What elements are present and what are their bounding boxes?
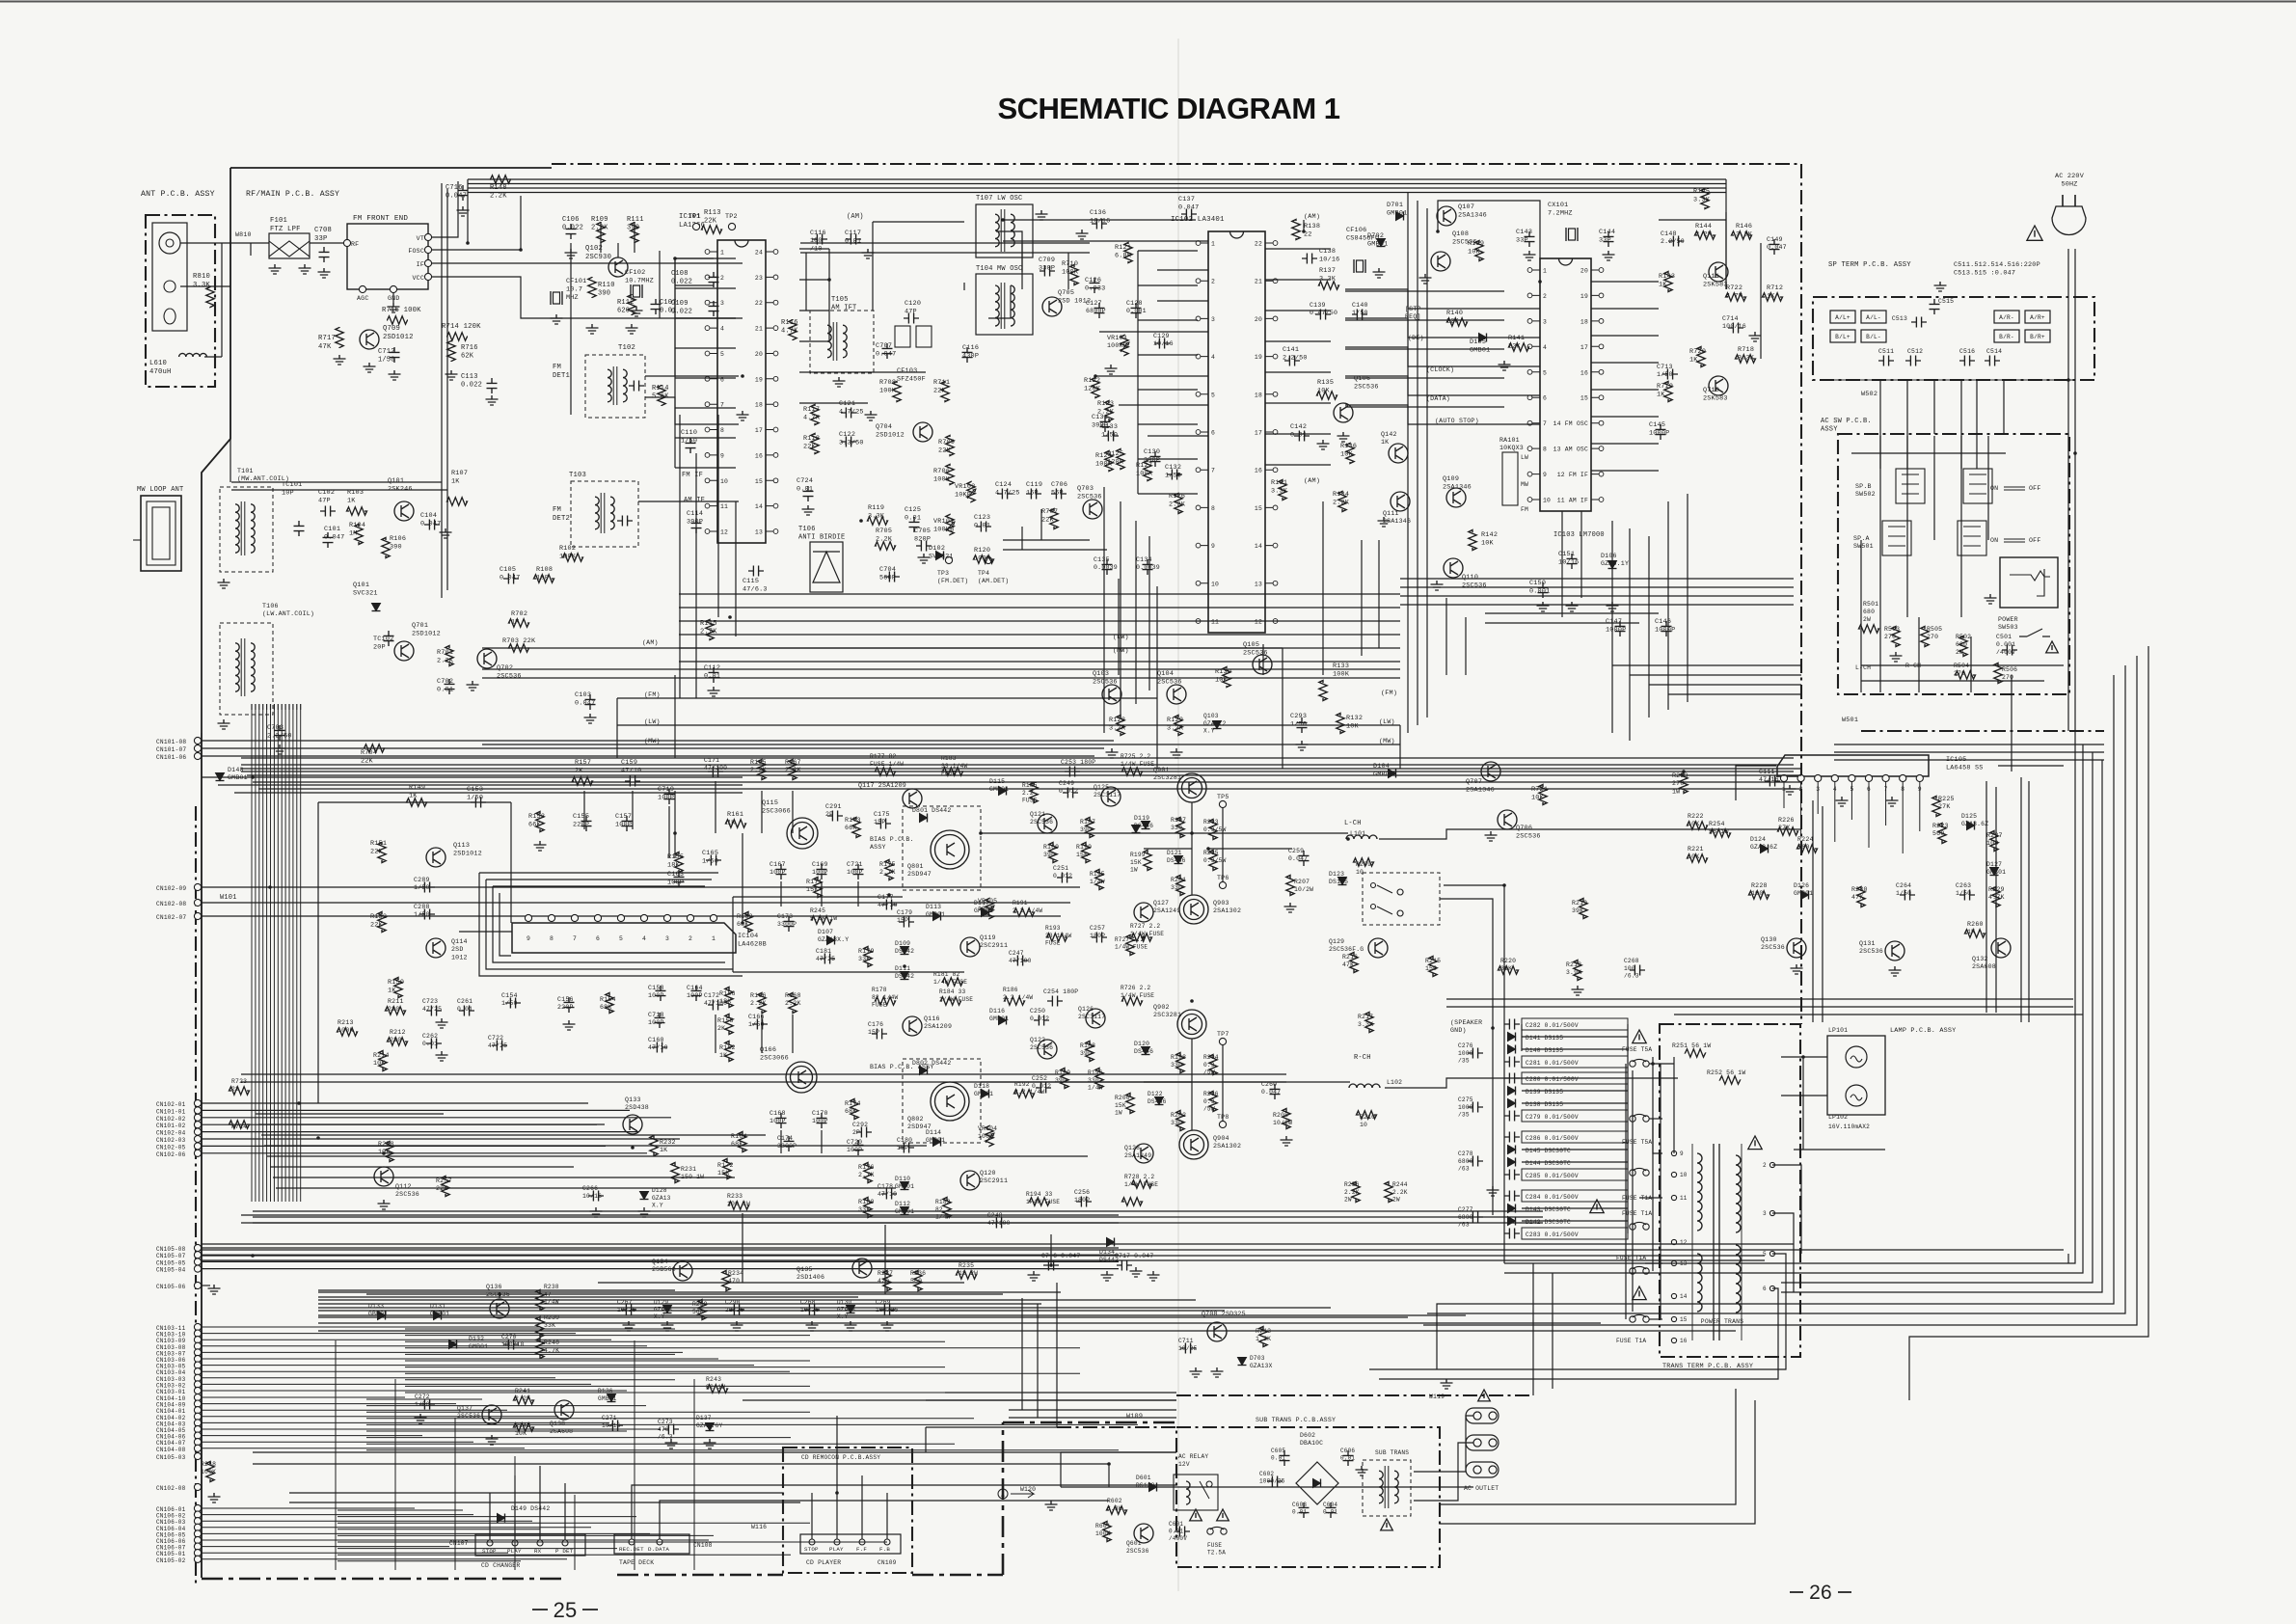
svg-text:T103: T103 (569, 472, 586, 479)
svg-text:R219: R219 (1572, 900, 1587, 907)
wire bottom-left risers2 (489, 1493, 491, 1504)
svg-text:ASSY: ASSY (870, 844, 886, 851)
resistor R218 (1574, 961, 1581, 981)
svg-text:0.01: 0.01 (422, 1041, 438, 1047)
svg-text:R179: R179 (858, 948, 875, 955)
transformer T102 coils (608, 366, 627, 405)
wire stair E (1437, 675, 2114, 1369)
svg-text:C129: C129 (1153, 333, 1170, 339)
svg-text:GMB01: GMB01 (895, 1183, 914, 1190)
trans secondary (1736, 1155, 1741, 1232)
ceramic CF103 (895, 326, 932, 347)
capacitor C250 (1034, 1015, 1049, 1026)
capacitor C283 (1522, 1228, 1628, 1239)
svg-text:A/L-: A/L- (1866, 314, 1881, 321)
svg-text:22K: 22K (436, 1185, 447, 1192)
testpoint TP2 (728, 223, 735, 230)
svg-text:CN102-04: CN102-04 (156, 1130, 186, 1137)
resistor R227 (1990, 831, 1998, 852)
svg-text:C116: C116 (810, 230, 826, 236)
svg-text:2.2K: 2.2K (1169, 501, 1186, 508)
wire relay-ic105 rows (1446, 998, 2073, 1000)
svg-text:R258: R258 (378, 1141, 394, 1148)
svg-text:IC103 LM7000: IC103 LM7000 (1553, 531, 1605, 539)
svg-text:C113: C113 (461, 373, 478, 381)
wire sub feed (1414, 1416, 1473, 1472)
wire fuse col (1625, 1064, 1627, 1319)
T107 LW OSC box (976, 204, 1033, 257)
diode D601 (1149, 1483, 1157, 1492)
svg-text:1/4W FUSE: 1/4W FUSE (1121, 992, 1154, 999)
ground C117 (862, 249, 875, 258)
trans core (1714, 1144, 1719, 1340)
svg-text:R722: R722 (1726, 284, 1742, 292)
wire varicap feeds (1725, 212, 1727, 289)
testpoint TP8 (1219, 1121, 1226, 1127)
svg-text:6: 6 (1763, 1286, 1767, 1292)
svg-text:270: 270 (1672, 780, 1684, 787)
ground R110 (586, 324, 599, 334)
svg-text:0.047: 0.047 (500, 574, 520, 582)
capacitor C719 (664, 789, 675, 804)
wire stair F (1427, 665, 2125, 1313)
svg-text:10P: 10P (282, 489, 294, 497)
diode D125 (1967, 822, 1975, 830)
svg-text:FM FRONT END: FM FRONT END (353, 215, 408, 223)
capacitor C141 (1284, 356, 1300, 366)
svg-text:15: 15 (1255, 505, 1262, 512)
svg-text:R248: R248 (201, 1461, 216, 1468)
svg-text:D145 DSC30TC: D145 DSC30TC (1526, 1148, 1571, 1154)
svg-text:LP101: LP101 (1828, 1027, 1848, 1034)
wire tuner inner mesh1 (1407, 193, 1409, 733)
svg-text:C175: C175 (874, 811, 890, 818)
CN107 leads (489, 1504, 491, 1540)
svg-text:19: 19 (755, 376, 763, 383)
svg-text:CN102-01: CN102-01 (156, 1101, 186, 1108)
svg-text:C713: C713 (1657, 364, 1673, 370)
svg-text:R209: R209 (1356, 861, 1371, 868)
wire IC104 wrap (479, 873, 743, 976)
svg-text:C514: C514 (1986, 348, 2002, 355)
svg-text:66K: 66K (845, 825, 856, 831)
svg-text:FOSC: FOSC (408, 248, 424, 255)
svg-text:R228: R228 (1751, 882, 1768, 889)
svg-text:4.7/25: 4.7/25 (839, 408, 864, 416)
svg-text:12: 12 (720, 529, 728, 536)
transistor Q125 (1101, 787, 1121, 806)
svg-text:AC SW P.C.B.: AC SW P.C.B. (1821, 418, 1872, 425)
svg-text:100: 100 (1751, 890, 1763, 897)
fet Q111 (1709, 262, 1728, 282)
svg-text:LA1266: LA1266 (679, 222, 705, 230)
wire W810 vert (230, 243, 231, 482)
svg-text:100P: 100P (812, 869, 828, 876)
resistor R103 (347, 507, 367, 515)
svg-text:C267: C267 (617, 1299, 633, 1306)
svg-text:R188: R188 (1080, 1042, 1095, 1049)
svg-text:C104: C104 (420, 512, 437, 520)
wire spterm top links (1824, 379, 2073, 381)
svg-text:R254: R254 (1709, 821, 1725, 827)
resistor R723 (230, 1087, 250, 1095)
svg-text:Q113: Q113 (453, 842, 470, 850)
fuse F T1A-1 (1630, 1168, 1649, 1176)
svg-text:Q125: Q125 (1094, 784, 1109, 791)
svg-text:R191: R191 (1013, 900, 1028, 907)
svg-text:14: 14 (755, 503, 763, 510)
svg-text:1/50: 1/50 (414, 911, 430, 918)
fuse F T5A-1 (1630, 1059, 1649, 1067)
capacitor C266 (588, 1191, 604, 1202)
resistor R503 (1892, 627, 1900, 647)
wire right stair extras (1423, 656, 2137, 1325)
svg-text:C106: C106 (562, 216, 580, 224)
resistor R704 (365, 744, 385, 752)
svg-text:GMB01: GMB01 (469, 1343, 488, 1350)
svg-text:GZA5.1Y: GZA5.1Y (1601, 560, 1629, 567)
svg-text:CN105-05: CN105-05 (156, 1259, 186, 1266)
diode D124 (1761, 845, 1769, 853)
connector CN107 box (475, 1534, 585, 1556)
svg-text:26: 26 (1809, 1582, 1832, 1604)
diode D701 (1396, 212, 1404, 221)
ground C723 (436, 1018, 448, 1028)
svg-text:0.047: 0.047 (1767, 244, 1787, 251)
svg-text:CN102-05: CN102-05 (156, 1144, 186, 1150)
svg-text:C120: C120 (905, 300, 921, 308)
svg-text:R231: R231 (681, 1166, 696, 1173)
svg-text:R242: R242 (515, 1422, 530, 1429)
wire mid right rows (241, 1073, 1286, 1075)
capacitor C164 (691, 986, 702, 1001)
svg-text:100P: 100P (615, 821, 632, 828)
svg-text:R206: R206 (1203, 1091, 1219, 1097)
svg-text:CN101-07: CN101-07 (156, 746, 186, 753)
wire tuner lattice A (800, 242, 1090, 244)
svg-text:10K: 10K (1481, 539, 1495, 547)
resistor R174 (851, 1099, 858, 1120)
svg-text:1000P: 1000P (1606, 626, 1626, 634)
svg-text:AGC: AGC (357, 295, 368, 302)
svg-text:1000/25: 1000/25 (1259, 1478, 1285, 1485)
resistor R727b (1126, 935, 1134, 956)
capacitor C720 (853, 1140, 864, 1155)
svg-text:R717: R717 (318, 335, 336, 342)
svg-text:GMB01: GMB01 (228, 774, 248, 781)
resistor R226 (1778, 827, 1798, 835)
svg-text:C119: C119 (1026, 481, 1042, 489)
BIAS box 2 (903, 1059, 981, 1143)
svg-text:Q166: Q166 (760, 1046, 776, 1054)
svg-text:A/R-: A/R- (1999, 314, 2014, 321)
diode D137 (706, 1423, 715, 1431)
svg-text:390P: 390P (687, 518, 703, 526)
testpoint TP1 (692, 223, 699, 230)
wire CN103 fan (202, 1326, 540, 1328)
svg-text:Q702: Q702 (497, 664, 513, 672)
resistor R722 (1726, 293, 1746, 301)
wire lower amp stubs (715, 1015, 716, 1053)
wire relay to spk (1444, 885, 1504, 1263)
capacitor C249 (1063, 788, 1078, 798)
svg-text:VR101: VR101 (933, 518, 954, 526)
svg-text:2SC536: 2SC536 (1093, 678, 1118, 686)
svg-text:20: 20 (1255, 316, 1262, 323)
svg-text:SP TERM P.C.B. ASSY: SP TERM P.C.B. ASSY (1828, 261, 1911, 269)
svg-text:16: 16 (1580, 369, 1588, 376)
svg-text:2SD947: 2SD947 (907, 871, 932, 878)
svg-text:C140: C140 (1352, 302, 1368, 309)
svg-text:7: 7 (1543, 420, 1547, 427)
resistor R168 (789, 993, 797, 1014)
diode D145 (1508, 1146, 1516, 1154)
wire low fans extend (318, 1289, 675, 1291)
transistor Q136 (490, 1299, 509, 1318)
svg-text:Q119: Q119 (980, 934, 996, 941)
svg-text:15K: 15K (1130, 859, 1142, 866)
svg-text:CN102-03: CN102-03 (156, 1137, 186, 1144)
svg-text:2W: 2W (1956, 649, 1963, 656)
svg-text:SUB TRANS: SUB TRANS (1375, 1449, 1409, 1456)
capacitor C280 (1522, 1072, 1628, 1084)
wire FOSC (431, 196, 521, 250)
svg-text:16V.110mAX2: 16V.110mAX2 (1828, 1123, 1870, 1130)
transistor Q114 (426, 938, 446, 958)
svg-text:47/10: 47/10 (648, 1044, 668, 1051)
diode D128 (640, 1192, 649, 1200)
svg-text:2: 2 (689, 935, 692, 942)
svg-text:100P: 100P (847, 1147, 862, 1153)
CN108 leads (631, 1510, 633, 1539)
diode D114 (933, 1138, 941, 1147)
svg-text:R240: R240 (544, 1340, 559, 1346)
resistor R125 (1117, 449, 1124, 470)
wire left main vertical (201, 733, 203, 1578)
wire long rails tuner-amp (241, 757, 1794, 759)
svg-text:100K: 100K (933, 475, 951, 483)
transistor Q903 (1179, 895, 1208, 924)
svg-text:RA101: RA101 (1499, 437, 1520, 444)
svg-text:R501: R501 (1863, 601, 1878, 608)
svg-text:3.3K: 3.3K (1167, 724, 1184, 732)
svg-text:R157: R157 (575, 759, 591, 767)
svg-text:330: 330 (1171, 884, 1182, 891)
svg-text:C112: C112 (704, 664, 720, 672)
wire fuse-trans 1 (1649, 1063, 1674, 1065)
resistor R107 (447, 498, 468, 505)
resistor R129 (1175, 716, 1182, 736)
transistor Q704 (913, 422, 932, 442)
resistor R130 (1223, 667, 1230, 688)
svg-text:Q701: Q701 (412, 622, 428, 630)
svg-text:GMB01: GMB01 (598, 1395, 617, 1402)
svg-text:Q111: Q111 (1703, 273, 1719, 281)
diode Q101d (372, 604, 381, 611)
resistor R221 (1688, 854, 1708, 862)
svg-text:D113: D113 (926, 904, 941, 910)
svg-text:2SA1249: 2SA1249 (1124, 1152, 1151, 1159)
wire ic101 lower drops (679, 415, 681, 698)
svg-text:Q705: Q705 (1058, 289, 1074, 297)
svg-text:D107: D107 (818, 929, 833, 935)
svg-text:CN108: CN108 (693, 1542, 713, 1549)
svg-text:1/50: 1/50 (702, 857, 718, 865)
wire band MW (482, 744, 1400, 745)
svg-text:FM IF: FM IF (682, 472, 703, 479)
connector CN102-08b (194, 1483, 201, 1490)
svg-text:D801 DS442: D801 DS442 (912, 807, 951, 814)
svg-text:RF: RF (351, 241, 359, 248)
resistor R502 (1959, 636, 1967, 657)
svg-text:4: 4 (1543, 344, 1547, 351)
ground IC105a (1836, 797, 1849, 806)
svg-text:R241: R241 (515, 1388, 530, 1394)
power transistor Q802 (931, 1082, 969, 1121)
capacitor C268c (804, 1305, 820, 1315)
resistor R139 (1475, 241, 1483, 261)
ground b3 (731, 1321, 743, 1331)
ground R503 (1890, 652, 1903, 662)
svg-text:D136: D136 (598, 1388, 613, 1394)
resistor R110 (588, 277, 596, 298)
transformer T104 coils (995, 283, 1014, 329)
transistor Q709 (360, 330, 379, 349)
capacitor C289 (419, 882, 435, 893)
svg-text:12 FM IF: 12 FM IF (1557, 472, 1588, 478)
resistor R137 (1319, 282, 1339, 289)
svg-text:R132: R132 (1346, 715, 1363, 722)
ground C714 (1749, 332, 1762, 341)
capacitor C705 (916, 541, 932, 552)
trans pins left (1671, 1150, 1676, 1155)
svg-text:/400V: /400V (1996, 649, 2015, 656)
svg-text:2SC2911: 2SC2911 (980, 1177, 1008, 1184)
svg-text:FUSE T1A: FUSE T1A (1616, 1338, 1646, 1344)
speaker switch SW501 (1882, 521, 1986, 555)
svg-text:PLAY: PLAY (829, 1546, 844, 1553)
ground R141 (1499, 361, 1511, 370)
testpoint TP5 (1219, 800, 1226, 807)
svg-text:C250: C250 (1030, 1008, 1045, 1015)
page fold line (1177, 39, 1179, 1591)
resistor R163 (744, 912, 752, 933)
svg-text:39K: 39K (1572, 907, 1583, 914)
capacitor C268b (1630, 965, 1645, 976)
svg-text:C181: C181 (816, 948, 831, 955)
svg-text:390: 390 (1043, 852, 1055, 858)
svg-text:C291: C291 (825, 803, 842, 810)
resistor R233 (729, 1202, 749, 1209)
T106 box (220, 623, 273, 715)
resistor R177 (876, 768, 896, 775)
wire IC104 wrap top (479, 872, 718, 874)
resistor R810 (206, 287, 214, 308)
svg-text:12: 12 (1255, 619, 1262, 626)
ground F101-b (299, 264, 311, 274)
svg-text:2.7K: 2.7K (879, 869, 896, 876)
svg-text:0.01: 0.01 (1340, 1455, 1355, 1462)
svg-text:C105: C105 (500, 566, 516, 574)
svg-text:18 2W: 18 2W (959, 1270, 978, 1277)
svg-text:R184 33: R184 33 (939, 988, 965, 995)
crystal CF106 (1354, 259, 1365, 273)
svg-text:2.2K: 2.2K (1695, 230, 1713, 238)
svg-text:100KB: 100KB (933, 526, 954, 533)
svg-text:390P: 390P (1144, 456, 1160, 464)
svg-text:10: 10 (1543, 498, 1551, 504)
svg-text:R158: R158 (717, 1017, 734, 1024)
resistor R150 (394, 978, 402, 998)
transistor Q132 (1991, 938, 2011, 958)
capacitor C251 (1057, 873, 1072, 883)
capacitor C281 (1522, 1056, 1628, 1068)
ground Q130 (1791, 964, 1803, 974)
svg-text:/5W: /5W (1203, 1106, 1215, 1113)
svg-text:2.2K: 2.2K (750, 767, 767, 773)
svg-text:22K: 22K (361, 757, 374, 765)
transistor Q142 (1389, 444, 1408, 463)
svg-text:18: 18 (1580, 318, 1588, 325)
svg-text:5: 5 (1763, 1251, 1767, 1258)
svg-text:1K: 1K (1657, 391, 1665, 398)
capacitor C163 (674, 872, 685, 887)
svg-text:11: 11 (720, 503, 728, 510)
transistor Q107 (1437, 206, 1456, 226)
resistor R204 (1209, 1055, 1217, 1075)
svg-text:FUSE T5A: FUSE T5A (1622, 1046, 1652, 1053)
diode D109 (901, 947, 909, 955)
resistor R254 (1711, 829, 1731, 837)
svg-text:R216: R216 (1342, 954, 1358, 961)
resistor R102 (563, 554, 583, 561)
svg-text:C126: C126 (1085, 277, 1101, 284)
svg-text:82 1W: 82 1W (706, 1384, 725, 1391)
pin GND (390, 285, 396, 292)
svg-text:C501: C501 (1996, 634, 2012, 640)
capacitor C150 (1538, 582, 1549, 598)
svg-text:R161: R161 (727, 811, 743, 819)
diode D106 (1608, 561, 1617, 569)
ground Q111b (1378, 517, 1391, 527)
svg-text:2SC536F.G: 2SC536F.G (1329, 946, 1364, 953)
svg-text:10K: 10K (1468, 248, 1481, 256)
svg-text:18K: 18K (667, 861, 681, 869)
resistor R117 (811, 405, 819, 425)
svg-text:680: 680 (1956, 641, 1967, 648)
svg-text:R151: R151 (370, 840, 387, 848)
svg-text:R210: R210 (1360, 1114, 1375, 1121)
resistor R149 (407, 798, 427, 806)
svg-text:C127: C127 (1086, 300, 1102, 307)
svg-text:A: A (1001, 1492, 1005, 1499)
svg-text:D109: D109 (895, 940, 910, 947)
resistor R240 (536, 1339, 544, 1359)
svg-text:X.Y: X.Y (652, 1203, 663, 1209)
svg-text:D127: D127 (1986, 861, 2002, 868)
svg-text:CD CHANGER: CD CHANGER (481, 1562, 520, 1569)
svg-text:82 1/4W: 82 1/4W (872, 994, 898, 1001)
resistor R148 (490, 176, 511, 183)
svg-text:16P: 16P (1026, 489, 1039, 497)
wire VCC right (431, 277, 743, 318)
svg-text:(LW): (LW) (1379, 718, 1395, 725)
svg-text:1012: 1012 (451, 954, 468, 961)
svg-text:Q133: Q133 (625, 1096, 641, 1103)
wire IC102-IC103 bus (1345, 289, 1540, 309)
transistor Q104 (1167, 685, 1186, 704)
svg-text:0.01: 0.01 (457, 1006, 473, 1013)
